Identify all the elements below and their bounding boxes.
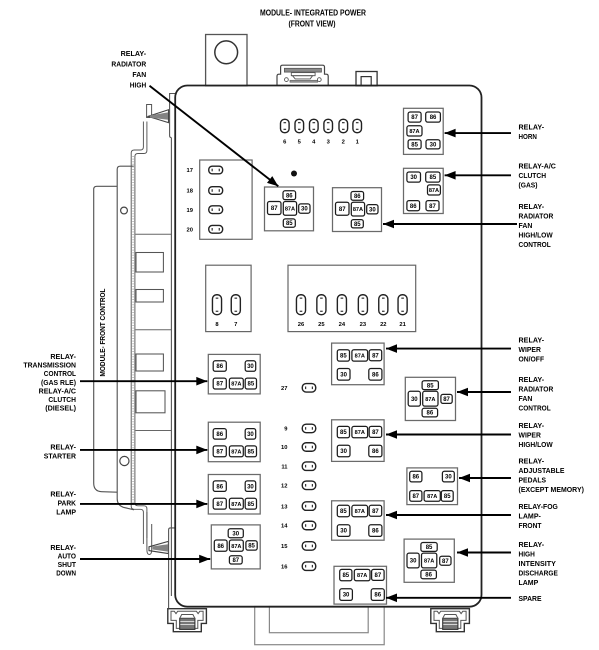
svg-text:85: 85 [426, 545, 433, 551]
label relay-transmission control / a-c clutch diesel [23, 352, 76, 413]
svg-text:86: 86 [372, 529, 379, 535]
svg-text:24: 24 [339, 322, 346, 328]
svg-text:85: 85 [411, 142, 418, 148]
channel slot 1 [136, 253, 163, 273]
svg-text:RELAY-: RELAY- [519, 375, 545, 384]
arrow to R4 [386, 594, 511, 603]
svg-text:30: 30 [340, 372, 347, 378]
svg-text:RELAY-: RELAY- [50, 443, 76, 452]
svg-text:HIGH/LOW: HIGH/LOW [519, 440, 553, 449]
svg-text:HIGH: HIGH [519, 550, 535, 559]
svg-text:30: 30 [410, 559, 417, 565]
svg-text:30: 30 [340, 449, 347, 455]
body flange strip bottom [169, 528, 175, 609]
svg-text:26: 26 [298, 322, 305, 328]
top mounting screw [147, 105, 169, 123]
svg-text:(GAS RLE): (GAS RLE) [41, 378, 77, 387]
label relay-park lamp [50, 490, 76, 517]
svg-text:WIPER: WIPER [519, 430, 542, 439]
svg-text:87: 87 [411, 115, 418, 121]
svg-text:7: 7 [234, 322, 237, 328]
relay block M1 (radiator fan high) [265, 187, 314, 231]
svg-text:CONTROL: CONTROL [44, 369, 77, 378]
label relay-radiator fan control [519, 375, 554, 413]
channel divider 3 [136, 430, 172, 432]
arrow to R2 [386, 430, 511, 439]
svg-text:MODULE- INTEGRATED POWER: MODULE- INTEGRATED POWER [260, 9, 366, 18]
relay block R4 (spare) [334, 566, 387, 604]
relay block L2 (starter) [208, 422, 260, 462]
svg-text:86: 86 [412, 475, 419, 481]
svg-text:11: 11 [281, 464, 288, 470]
svg-text:RELAY-A/C: RELAY-A/C [519, 161, 557, 170]
svg-text:30: 30 [445, 475, 452, 481]
svg-text:PEDALS: PEDALS [519, 476, 547, 485]
svg-text:85: 85 [430, 175, 437, 181]
svg-text:RELAY-: RELAY- [519, 457, 545, 466]
svg-text:87A: 87A [285, 207, 295, 213]
svg-text:85: 85 [340, 509, 347, 515]
svg-text:85: 85 [444, 494, 451, 500]
svg-text:DOWN: DOWN [56, 569, 76, 578]
svg-text:86: 86 [286, 193, 293, 199]
svg-text:RELAY-FOG: RELAY-FOG [519, 502, 559, 511]
svg-text:30: 30 [411, 397, 418, 403]
svg-text:21: 21 [399, 322, 406, 328]
bottom access door [255, 607, 385, 645]
svg-text:12: 12 [281, 484, 287, 490]
svg-text:87: 87 [375, 573, 382, 579]
svg-text:87A: 87A [425, 397, 435, 403]
top connector [277, 65, 328, 86]
svg-text:87A: 87A [355, 509, 365, 515]
svg-text:85: 85 [427, 383, 434, 389]
svg-text:SPARE: SPARE [519, 594, 542, 603]
svg-text:30: 30 [410, 175, 417, 181]
arrow to L2 [80, 446, 207, 455]
svg-text:85: 85 [354, 222, 361, 228]
svg-text:30: 30 [247, 484, 254, 490]
relay block L4 (auto shut down) [211, 525, 260, 569]
svg-text:RELAY-: RELAY- [519, 540, 545, 549]
svg-text:INTENSITY: INTENSITY [519, 559, 557, 568]
svg-text:RELAY-: RELAY- [519, 336, 545, 345]
fuse block 8-7 [206, 265, 251, 331]
svg-text:87: 87 [372, 509, 379, 515]
svg-text:PARK: PARK [58, 499, 77, 508]
arrow to L4 [80, 555, 210, 564]
fuse block 21-26 [288, 265, 416, 331]
svg-text:86: 86 [374, 593, 381, 599]
arrow to a/c clutch relay [445, 171, 511, 180]
vertical text MODULE-FRONT CONTROL [100, 288, 107, 377]
svg-text:14: 14 [281, 524, 288, 530]
channel slot 3 [136, 354, 163, 371]
title MODULE-INTEGRATED POWER [260, 9, 366, 29]
label relay-radiator fan high/low control [519, 202, 554, 249]
svg-text:DISCHARGE: DISCHARGE [519, 569, 559, 578]
fuse row 1-6 [281, 119, 362, 145]
svg-text:87A: 87A [409, 129, 419, 135]
bottom foot right [431, 609, 470, 632]
svg-text:30: 30 [232, 531, 239, 537]
svg-text:ON/OFF: ON/OFF [519, 355, 545, 364]
svg-text:RELAY-: RELAY- [50, 352, 76, 361]
svg-text:85: 85 [286, 221, 293, 227]
bottom foot left [168, 609, 207, 632]
svg-text:85: 85 [248, 449, 255, 455]
label relay-starter [44, 443, 77, 461]
bracket channel edge (hatched double line) [131, 122, 147, 545]
relay block R3 (fog lamp front) [332, 501, 385, 540]
channel divider 2 [136, 329, 172, 331]
svg-text:87: 87 [412, 494, 419, 500]
svg-text:(FRONT VIEW): (FRONT VIEW) [289, 19, 336, 28]
svg-text:30: 30 [247, 432, 254, 438]
svg-text:CLUTCH: CLUTCH [48, 395, 76, 404]
svg-text:87: 87 [372, 430, 379, 436]
channel divider 1 [136, 233, 172, 235]
svg-text:LAMP-: LAMP- [519, 512, 542, 521]
node bullet near M1 [291, 171, 297, 177]
svg-text:85: 85 [340, 430, 347, 436]
svg-text:23: 23 [360, 322, 367, 328]
svg-text:13: 13 [281, 504, 288, 510]
relay block F1 (radiator fan control) [405, 377, 455, 420]
relay block M2 (radiator fan high/low control) [333, 188, 382, 232]
svg-text:RELAY-A/C: RELAY-A/C [39, 386, 77, 395]
svg-text:87: 87 [339, 207, 346, 213]
svg-text:86: 86 [216, 484, 223, 490]
svg-text:87A: 87A [429, 188, 439, 194]
relay block L3 (park lamp) [208, 475, 260, 515]
svg-text:86: 86 [372, 372, 379, 378]
svg-text:87A: 87A [355, 430, 365, 436]
svg-text:87: 87 [232, 558, 239, 564]
arrow to horn relay [445, 129, 511, 138]
svg-text:RADIATOR: RADIATOR [111, 60, 146, 69]
svg-text:FAN: FAN [132, 70, 146, 79]
svg-text:87: 87 [429, 204, 436, 210]
svg-text:87A: 87A [353, 207, 363, 213]
channel slot 4 [136, 391, 165, 413]
svg-text:87A: 87A [231, 382, 241, 388]
bottom mounting screw [147, 512, 169, 555]
label relay-a/c clutch gas [519, 161, 557, 189]
arrow to L1 [80, 377, 207, 386]
svg-text:86: 86 [430, 115, 437, 121]
svg-text:85: 85 [340, 354, 347, 360]
svg-text:87A: 87A [355, 354, 365, 360]
svg-text:86: 86 [410, 204, 417, 210]
svg-text:30: 30 [247, 364, 254, 370]
arrow to R1 [386, 344, 511, 353]
arrow to L3 [80, 500, 207, 509]
plate hole lower [120, 456, 129, 465]
svg-text:86: 86 [354, 194, 361, 200]
arrow to F2 [457, 548, 511, 557]
svg-text:30: 30 [430, 142, 437, 148]
svg-text:RELAY-: RELAY- [519, 123, 545, 132]
label relay-high intensity discharge lamp [519, 540, 559, 587]
svg-text:FAN: FAN [519, 221, 533, 230]
arrow to M1 (diagonal) [150, 86, 281, 190]
svg-text:15: 15 [281, 544, 288, 550]
svg-text:HIGH/LOW: HIGH/LOW [519, 231, 553, 240]
svg-text:FRONT: FRONT [519, 521, 542, 530]
body flange strip top [170, 94, 176, 597]
svg-text:87: 87 [216, 382, 223, 388]
arrow to M2 [383, 220, 517, 229]
arrow to F1 [457, 388, 511, 397]
svg-text:86: 86 [216, 364, 223, 370]
svg-text:27: 27 [281, 386, 287, 392]
svg-text:RADIATOR: RADIATOR [519, 384, 554, 393]
svg-text:LAMP: LAMP [56, 507, 76, 516]
svg-text:HIGH: HIGH [130, 81, 146, 90]
arrow to R3 [386, 511, 511, 520]
svg-text:87A: 87A [231, 449, 241, 455]
svg-text:30: 30 [369, 207, 376, 213]
mounting tab with hole [206, 35, 247, 86]
relay block adjustable pedals [407, 468, 458, 505]
svg-text:30: 30 [301, 207, 308, 213]
svg-text:RELAY-: RELAY- [121, 49, 147, 58]
fuse block 17-20 [187, 160, 253, 239]
svg-text:18: 18 [187, 189, 194, 195]
label relay-horn [519, 123, 545, 142]
svg-text:RADIATOR: RADIATOR [519, 212, 554, 221]
svg-text:(DIESEL): (DIESEL) [45, 404, 76, 413]
svg-text:MODULE- FRONT CONTROL: MODULE- FRONT CONTROL [100, 288, 107, 377]
main body outline [175, 86, 481, 607]
label relay-auto shut down [50, 543, 76, 578]
svg-text:TRANSMISSION: TRANSMISSION [23, 360, 76, 369]
label relay-fog lamp front [519, 502, 559, 530]
svg-text:17: 17 [187, 168, 193, 174]
svg-text:RELAY-: RELAY- [519, 421, 545, 430]
svg-text:10: 10 [281, 445, 287, 451]
svg-text:CLUTCH: CLUTCH [519, 171, 547, 180]
svg-text:87: 87 [216, 449, 223, 455]
svg-text:86: 86 [425, 573, 432, 579]
svg-text:RELAY-: RELAY- [50, 490, 76, 499]
svg-text:86: 86 [217, 544, 224, 550]
svg-text:30: 30 [343, 593, 350, 599]
outer mounting plate A [94, 186, 117, 492]
svg-text:WIPER: WIPER [519, 345, 542, 354]
svg-text:87: 87 [443, 397, 450, 403]
plate hole upper [121, 207, 128, 214]
label relay-wiper on/off [519, 336, 545, 364]
svg-text:16: 16 [281, 564, 288, 570]
relay block horn [404, 108, 444, 154]
svg-text:ADJUSTABLE: ADJUSTABLE [519, 466, 565, 475]
label relay-radiator fan high [111, 49, 146, 90]
svg-text:87: 87 [372, 353, 379, 359]
mounting plate B [117, 166, 134, 510]
svg-text:86: 86 [372, 449, 379, 455]
svg-text:87A: 87A [427, 494, 437, 500]
svg-text:19: 19 [187, 208, 194, 214]
svg-text:87A: 87A [231, 502, 241, 508]
fuse column 27 and 9-16 [281, 384, 316, 571]
svg-text:85: 85 [248, 544, 255, 550]
svg-text:STARTER: STARTER [44, 451, 77, 460]
svg-text:22: 22 [380, 322, 386, 328]
svg-text:87A: 87A [231, 544, 241, 550]
svg-text:87: 87 [442, 559, 449, 565]
svg-text:25: 25 [318, 322, 325, 328]
small top stub [356, 72, 377, 86]
svg-text:30: 30 [340, 529, 347, 535]
svg-text:CONTROL: CONTROL [519, 240, 552, 249]
relay block L1 (transmission control) [208, 354, 260, 394]
svg-text:CONTROL: CONTROL [519, 403, 552, 412]
svg-text:20: 20 [187, 228, 193, 234]
svg-text:(EXCEPT MEMORY): (EXCEPT MEMORY) [519, 485, 585, 494]
svg-text:HORN: HORN [519, 132, 537, 141]
svg-text:85: 85 [248, 382, 255, 388]
arrow to pedals relay [459, 474, 511, 483]
svg-text:87: 87 [216, 502, 223, 508]
svg-text:FAN: FAN [519, 394, 533, 403]
label relay-wiper high/low [519, 421, 553, 449]
svg-text:87A: 87A [424, 559, 434, 565]
svg-text:87: 87 [271, 206, 278, 212]
relay block a/c clutch gas [404, 168, 444, 213]
label relay-adjustable pedals [519, 457, 585, 495]
svg-text:87A: 87A [357, 573, 367, 579]
relay block F2 (high intensity discharge lamp) [404, 539, 454, 582]
label spare [519, 594, 542, 603]
svg-text:86: 86 [427, 411, 434, 417]
svg-text:RELAY-: RELAY- [519, 202, 545, 211]
relay block R1 (wiper on/off) [332, 343, 385, 385]
svg-text:2: 2 [342, 139, 345, 145]
relay block R2 (wiper high/low) [332, 420, 385, 462]
svg-text:(GAS): (GAS) [519, 180, 539, 189]
svg-text:LAMP: LAMP [519, 578, 539, 587]
svg-text:86: 86 [216, 432, 223, 438]
channel slot 2 [136, 290, 163, 303]
svg-text:85: 85 [248, 502, 255, 508]
svg-text:85: 85 [342, 573, 349, 579]
